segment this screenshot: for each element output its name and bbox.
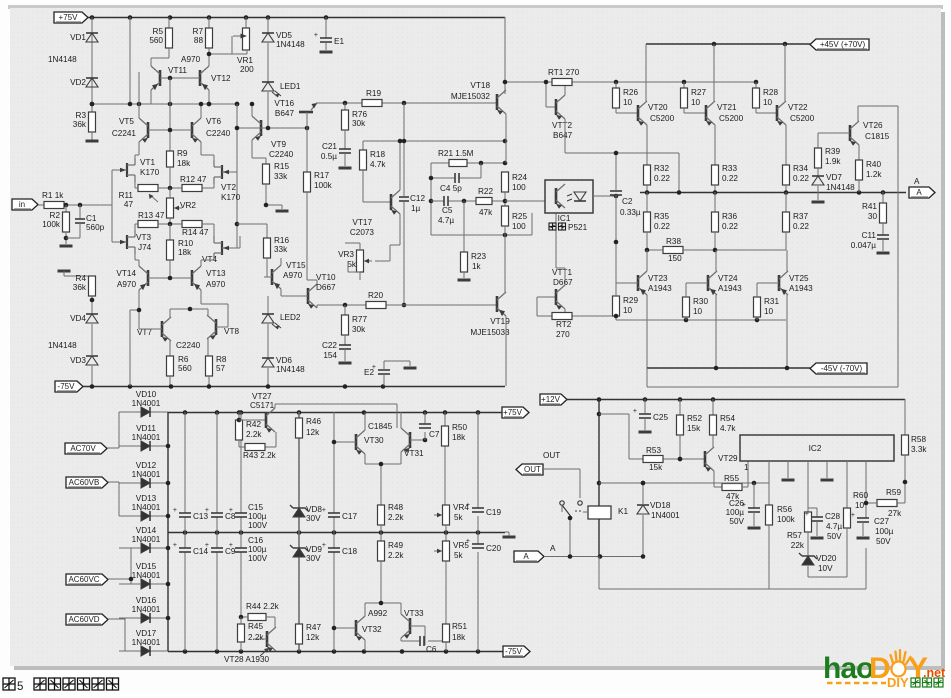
label A right	[914, 177, 920, 186]
label C28	[825, 512, 840, 521]
label VR3	[338, 250, 354, 259]
svg-text:4.7k: 4.7k	[370, 160, 386, 169]
capacitor C19	[466, 502, 484, 512]
svg-text:R27: R27	[691, 88, 706, 97]
label R16	[274, 236, 289, 245]
wire VT31 collector	[400, 412, 402, 428]
svg-text:18k: 18k	[452, 633, 466, 642]
svg-text:VD10: VD10	[136, 390, 157, 399]
svg-text:VT9: VT9	[271, 140, 286, 149]
svg-text:50V: 50V	[729, 517, 744, 526]
node RT2/R29	[614, 314, 619, 319]
label R41 value	[868, 212, 878, 221]
label C16 unit	[248, 554, 268, 563]
label C8	[225, 512, 236, 521]
svg-text:10: 10	[763, 98, 773, 107]
label VT25	[789, 274, 809, 283]
resistor R2	[63, 212, 70, 232]
svg-text:A: A	[914, 177, 920, 186]
wire VT26 collector	[857, 106, 859, 121]
wire VTT1 wiring	[556, 213, 565, 285]
label R55	[724, 474, 739, 483]
wire VT6 emitter	[201, 142, 214, 160]
wire VT28 base stub	[253, 638, 267, 640]
label VT17	[352, 218, 372, 227]
diode VD4	[86, 314, 98, 323]
wire R52 stub	[679, 399, 681, 415]
label R7 value	[194, 36, 204, 45]
label R34	[793, 164, 808, 173]
wire R2 ground	[65, 232, 67, 244]
svg-text:RT1 270: RT1 270	[548, 68, 580, 77]
wire VT7 emitter	[169, 341, 171, 356]
label R55 value	[726, 492, 740, 501]
transistor VT6	[192, 118, 201, 143]
label C15	[248, 503, 263, 512]
resistor R16	[264, 238, 271, 258]
label R8 value	[216, 364, 226, 373]
label R11	[119, 191, 134, 200]
svg-text:OUT: OUT	[543, 451, 560, 460]
capacitor C14	[173, 542, 191, 552]
label VT12	[211, 74, 231, 83]
wire RT2 row	[537, 297, 616, 316]
wire R25 down	[504, 226, 506, 292]
wire -75V bottom rail	[168, 651, 503, 653]
wire R7 branch	[208, 17, 210, 28]
svg-text:R13 47: R13 47	[138, 211, 165, 220]
svg-text:270: 270	[556, 330, 570, 339]
svg-text:R15: R15	[274, 162, 289, 171]
label R35	[654, 212, 669, 221]
label R32	[654, 164, 669, 173]
resistor R41	[880, 203, 887, 223]
wire C26 link	[599, 482, 769, 484]
wire R54 bottom	[712, 435, 714, 447]
AC input tag AC60VD	[66, 614, 108, 625]
input nodes	[64, 203, 83, 208]
svg-text:A1943: A1943	[718, 284, 742, 293]
transistor VT15	[272, 265, 281, 289]
resistor R50	[442, 426, 449, 446]
wire base feed R28	[755, 82, 757, 88]
label VT19	[490, 317, 510, 326]
svg-text:VD16: VD16	[136, 596, 157, 605]
wire pnp row bottom	[616, 319, 786, 321]
label VT19 type	[470, 328, 510, 337]
svg-text:22k: 22k	[791, 541, 805, 550]
transistor VT11	[151, 66, 160, 90]
wire R39 to VD7	[817, 168, 819, 176]
wire R16 column	[237, 224, 267, 238]
wire R57 to VD20	[807, 532, 809, 556]
label C26 value	[726, 508, 745, 517]
resistor R57	[805, 512, 812, 532]
node VT7/8 collectors	[188, 307, 193, 312]
wire x130 lower bus	[130, 310, 139, 386]
capacitor C25	[633, 408, 651, 418]
power tag +75V	[54, 12, 88, 23]
label VT1 type	[140, 168, 160, 177]
wire VT9 collector	[251, 104, 253, 116]
svg-text:57: 57	[216, 364, 226, 373]
node bus	[597, 412, 602, 486]
svg-text:VT14: VT14	[116, 269, 136, 278]
wire source row1	[135, 182, 214, 188]
wire R76 branch	[344, 103, 346, 110]
svg-text:R51: R51	[452, 622, 467, 631]
power tag -45V (-70V)	[810, 363, 867, 374]
label OUT	[543, 451, 560, 460]
capacitor C16	[229, 542, 247, 552]
wire R29 bottom	[615, 316, 617, 320]
node R52/R53	[678, 457, 683, 462]
wire R31 bottom	[756, 317, 758, 320]
label VD14	[136, 526, 157, 535]
wire R38 row	[647, 249, 786, 251]
svg-text:VTT2: VTT2	[552, 121, 572, 130]
wire diode cathode bus	[167, 412, 169, 651]
label VD11	[136, 424, 156, 433]
svg-text:VD15: VD15	[136, 562, 157, 571]
transistor VT33	[401, 614, 410, 639]
wire C11 ground	[882, 239, 884, 251]
wire R50 column	[444, 412, 446, 505]
label E1	[334, 37, 344, 46]
svg-text:C20: C20	[486, 544, 501, 553]
wire R26 to VT20	[616, 108, 638, 113]
svg-text:R24: R24	[512, 173, 527, 182]
resistor R43	[245, 444, 265, 451]
zener VD20	[799, 553, 817, 565]
JFET VT4	[214, 236, 229, 260]
wire C5 row	[431, 200, 505, 202]
label R18 value	[370, 160, 386, 169]
node IC1/C2	[614, 194, 619, 199]
label R32 value	[654, 174, 670, 183]
svg-text:MJE15032: MJE15032	[451, 92, 491, 101]
node VT7 base	[137, 308, 142, 313]
wire R35 stub	[646, 192, 648, 212]
svg-text:+: +	[633, 408, 637, 415]
wire LED1 down	[267, 92, 269, 128]
label VD4	[70, 314, 86, 323]
svg-text:C22: C22	[322, 341, 337, 350]
JFET VT1	[120, 158, 135, 182]
wire R48-R49	[380, 525, 382, 541]
label C25	[653, 413, 668, 422]
junction dots -75V rail	[90, 384, 386, 389]
pot VR5	[434, 541, 450, 561]
label R36 value	[722, 222, 738, 231]
node C2 top	[614, 151, 619, 156]
svg-text:C19: C19	[486, 508, 501, 517]
svg-text:1N4001: 1N4001	[132, 638, 161, 647]
wire VT13 collector down	[201, 290, 228, 327]
svg-text:C1845: C1845	[368, 422, 393, 431]
svg-text:VT16: VT16	[274, 99, 294, 108]
label R6	[178, 355, 189, 364]
label VD14 type	[132, 535, 161, 544]
label R76 value	[352, 119, 366, 128]
label VT24	[718, 274, 738, 283]
svg-text:47k: 47k	[479, 208, 493, 217]
label R6 value	[178, 364, 192, 373]
wire VT30/31 emitters	[365, 452, 401, 505]
label C16	[248, 536, 263, 545]
wire C25 ground	[644, 418, 646, 430]
transistor VT22	[777, 101, 786, 126]
wire base feed R26	[615, 82, 617, 88]
wire feedback loop	[647, 106, 898, 387]
capacitor C5	[444, 196, 448, 206]
resistor R17	[304, 172, 311, 192]
svg-text:R76: R76	[352, 110, 367, 119]
wire R8 to rail	[208, 376, 210, 386]
svg-text:VD11: VD11	[136, 424, 156, 433]
ground below E1	[320, 51, 333, 54]
wire VD18 wiring	[642, 483, 644, 556]
svg-text:C11: C11	[862, 231, 877, 240]
wire VT8 emitter	[208, 339, 209, 356]
label VD9 value	[306, 554, 321, 563]
svg-text:+75V: +75V	[503, 408, 523, 417]
label R54 value	[720, 424, 736, 433]
wire C17 column	[333, 412, 335, 651]
svg-text:R58: R58	[911, 435, 926, 444]
label R51	[452, 622, 467, 631]
label VT26	[863, 121, 883, 130]
svg-text:R54: R54	[720, 414, 735, 423]
resistor R55	[722, 484, 742, 491]
svg-text:-75V: -75V	[505, 647, 523, 656]
power tag +12V	[540, 394, 567, 405]
label C7	[429, 430, 440, 439]
label C5 value	[438, 216, 454, 225]
wire R9 bottom	[169, 167, 171, 188]
svg-text:A992: A992	[368, 609, 388, 618]
transistor VT27	[266, 408, 275, 433]
svg-text:30V: 30V	[306, 514, 321, 523]
svg-text:0.047µ: 0.047µ	[851, 241, 876, 250]
svg-text:C4 5p: C4 5p	[440, 184, 462, 193]
wire gate bus	[112, 170, 120, 242]
wire IC2 pin R59	[865, 461, 867, 503]
svg-text:R57: R57	[787, 531, 802, 540]
svg-text:R35: R35	[654, 212, 669, 221]
nodes y104	[90, 76, 240, 107]
label R17 value	[314, 181, 333, 190]
node base row	[168, 128, 173, 133]
transistor VT24	[708, 271, 717, 295]
label R20	[368, 291, 383, 300]
switch contact	[560, 501, 583, 518]
wire C28 ground	[816, 521, 818, 536]
svg-text:VT13: VT13	[206, 269, 226, 278]
wire +45V rail	[646, 43, 810, 45]
wire VT31 base	[410, 439, 425, 441]
diode VD13	[141, 511, 150, 521]
label R56	[777, 505, 792, 514]
wire VD8 column	[298, 412, 300, 651]
label R5 value	[149, 36, 163, 45]
junction dots bottom +75V	[183, 410, 481, 415]
label C5	[442, 206, 453, 215]
label R13	[138, 211, 165, 220]
svg-text:+12V: +12V	[541, 395, 561, 404]
label R28 value	[763, 98, 773, 107]
svg-text:C27: C27	[874, 517, 889, 526]
ground bar E2	[404, 367, 417, 370]
label C14	[193, 547, 208, 556]
label C11 value	[851, 241, 876, 250]
label R3 value	[73, 120, 87, 129]
label R43	[243, 451, 277, 460]
label VD6	[276, 356, 292, 365]
resistor R10	[167, 240, 174, 260]
resistor R38	[663, 247, 683, 254]
svg-text:100V: 100V	[248, 521, 268, 530]
resistor R13	[138, 221, 158, 228]
node C12 bottom	[402, 303, 407, 308]
ground below R23	[458, 279, 471, 282]
label R3	[76, 111, 87, 120]
label R22 value	[479, 208, 493, 217]
svg-text:R1 1k: R1 1k	[42, 191, 64, 200]
svg-text:10: 10	[623, 306, 633, 315]
svg-text:R18: R18	[370, 150, 385, 159]
svg-text:AC70V: AC70V	[70, 444, 96, 453]
transistor VT25	[779, 271, 788, 295]
wire VT20 collector	[645, 44, 647, 101]
svg-text:AC60VC: AC60VC	[68, 575, 99, 584]
wire R3 to ground	[91, 132, 93, 140]
svg-text:30: 30	[868, 212, 878, 221]
wire IC2 pin gnd1	[787, 461, 789, 478]
svg-text:A: A	[550, 544, 556, 553]
diode VD3	[86, 356, 98, 365]
wire R40 to out line	[858, 180, 860, 192]
transistor VT14	[139, 266, 148, 290]
label R19	[366, 89, 381, 98]
label VR4	[453, 503, 469, 512]
wire VT6 collector	[200, 104, 202, 118]
label R4	[76, 274, 87, 283]
capacitor C12	[399, 197, 409, 201]
svg-text:VD2: VD2	[70, 78, 86, 87]
label VD8	[306, 505, 322, 514]
label C6	[426, 645, 437, 654]
svg-text:100: 100	[512, 183, 526, 192]
label C17	[342, 512, 357, 521]
svg-text:10V: 10V	[818, 564, 833, 573]
label VT11	[168, 66, 187, 75]
wire R10 bottom	[169, 260, 171, 278]
wire VD14 row	[119, 547, 168, 549]
svg-text:+: +	[229, 542, 233, 549]
svg-text:C2: C2	[622, 197, 633, 206]
svg-text:15k: 15k	[687, 424, 701, 433]
wire VT5/VT6 base row	[148, 78, 192, 151]
transistor VT5	[139, 118, 148, 143]
wire R60 bottom	[846, 528, 848, 577]
label VD12 type	[132, 470, 161, 479]
LED LED2	[262, 314, 281, 329]
label R24 value	[512, 183, 526, 192]
svg-text:R32: R32	[654, 164, 669, 173]
wire R51 to rail	[445, 642, 447, 651]
junction dots mid rail	[183, 530, 481, 535]
svg-text:+: +	[322, 542, 326, 549]
resistor R32	[644, 165, 651, 185]
label R44	[246, 602, 280, 611]
node row2	[168, 222, 240, 227]
node VT9 col	[250, 102, 255, 107]
node R77	[343, 303, 348, 308]
svg-text:R45: R45	[248, 622, 263, 631]
transistor VT10	[308, 284, 317, 309]
label VR5	[453, 541, 469, 550]
svg-text:R59: R59	[886, 488, 901, 497]
wire VT32 base	[334, 627, 356, 629]
wire R28 to VT22	[756, 108, 777, 113]
capacitor C27	[851, 512, 869, 522]
svg-text:C2240: C2240	[206, 129, 231, 138]
label R33	[722, 164, 737, 173]
label VD13	[136, 494, 157, 503]
wire C15 column	[240, 412, 242, 617]
svg-text:2.2k: 2.2k	[388, 513, 404, 522]
wire VT9 emitter	[252, 140, 266, 164]
svg-text:+75V: +75V	[59, 13, 79, 22]
wire collector row y104	[92, 90, 237, 104]
resistor R35	[644, 212, 651, 232]
svg-text:30k: 30k	[352, 119, 366, 128]
wire OUT to switch	[543, 469, 580, 498]
label VD20	[816, 554, 837, 563]
wire VT7 collector	[170, 309, 208, 317]
svg-text:+: +	[314, 32, 318, 39]
junction dots bottom -75V	[183, 649, 481, 654]
label VD11 type	[132, 433, 161, 442]
svg-text:+45V (+70V): +45V (+70V)	[820, 40, 866, 49]
label R49	[388, 541, 403, 550]
label C27 unit	[876, 537, 891, 546]
capacitor C11	[877, 235, 889, 239]
svg-text:2.2k: 2.2k	[246, 430, 262, 439]
svg-text:1N4001: 1N4001	[132, 470, 161, 479]
capacitor C6	[420, 636, 424, 646]
svg-text:+: +	[466, 502, 470, 509]
svg-text:C5200: C5200	[790, 114, 815, 123]
transistor VT17	[391, 190, 400, 215]
svg-text:R4: R4	[76, 274, 87, 283]
label VT10	[316, 273, 336, 282]
label VD17	[136, 629, 157, 638]
label VT29	[718, 454, 738, 463]
VT28 label arrow	[260, 648, 269, 656]
svg-text:VD9: VD9	[306, 545, 322, 554]
wire VT19 base line	[317, 304, 497, 306]
wire VT32/33 bases joined	[365, 603, 401, 616]
junction dots top rail	[90, 15, 329, 20]
svg-text:C18: C18	[342, 547, 357, 556]
label R2	[50, 211, 61, 220]
label R35 value	[654, 222, 670, 231]
resistor R26	[613, 88, 620, 108]
svg-text:+: +	[173, 507, 177, 514]
svg-text:R77: R77	[352, 315, 367, 324]
